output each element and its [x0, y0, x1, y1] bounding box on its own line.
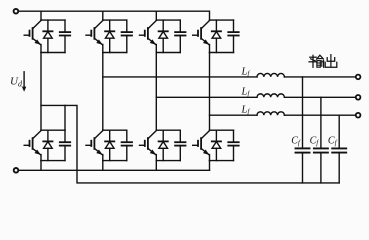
- svg-text:Cf: Cf: [291, 135, 301, 147]
- terminal: DC+ input: [14, 9, 19, 14]
- label 输出 (output): [309, 55, 324, 67]
- wire: module 2 emitter rail: [103, 52, 127, 54]
- wire: leg 3 emitter stub: [155, 161, 157, 171]
- inductor L3 (Lf): [257, 112, 284, 115]
- terminal: DC- input: [14, 168, 19, 173]
- inductor L1 (Lf): [257, 73, 284, 76]
- wire: module 2 collector rail: [103, 19, 127, 21]
- wire: leg 3 collector stub: [155, 11, 157, 20]
- wire: module 4 collector rail: [210, 19, 234, 21]
- wire: leg 3 midpoint vertical: [155, 53, 157, 131]
- diode D5 (anti-parallel): [43, 130, 52, 160]
- capacitor Cf1 (filter): [296, 77, 310, 183]
- wire: module 7 emitter rail: [156, 160, 180, 162]
- capacitor C6 (snubber): [122, 130, 132, 160]
- wire: leg 4 midpoint vertical: [209, 53, 211, 131]
- wire: leg 2 collector stub: [102, 11, 104, 20]
- capacitor C4 (snubber): [228, 20, 238, 52]
- wire: neutral from leg 1 midpoint: [41, 105, 339, 182]
- svg-text:Lf: Lf: [241, 66, 251, 78]
- diode D2 (anti-parallel): [105, 20, 114, 52]
- diode D8 (anti-parallel): [212, 130, 221, 160]
- transistor Q1 (IGBT): [24, 21, 41, 53]
- diode D1 (anti-parallel): [43, 20, 52, 52]
- svg-text:Lf: Lf: [241, 87, 251, 99]
- wire: module 4 emitter rail: [210, 52, 234, 54]
- capacitor C8 (snubber): [228, 130, 238, 160]
- wire: phase 2 to output terminal: [284, 96, 355, 98]
- wire: phase 1 output line: [103, 76, 257, 78]
- transistor Q7 (IGBT): [140, 131, 157, 161]
- transistor Q5 (IGBT): [24, 131, 41, 161]
- transistor Q2 (IGBT): [86, 21, 103, 53]
- svg-text:Ud: Ud: [10, 76, 23, 89]
- svg-text:Lf: Lf: [241, 105, 251, 117]
- transistor Q8 (IGBT): [193, 131, 210, 161]
- capacitor C3 (snubber): [175, 20, 185, 52]
- wire: phase 3 output line: [210, 114, 258, 116]
- capacitor C1 (snubber): [60, 20, 70, 52]
- capacitor C5 (snubber): [60, 130, 70, 160]
- capacitor C2 (snubber): [122, 20, 132, 52]
- wire: phase 3 to output terminal: [284, 114, 355, 116]
- diode D4 (anti-parallel): [212, 20, 221, 52]
- wire: DC- bus: [19, 169, 210, 171]
- wire: leg 2 emitter stub: [102, 161, 104, 171]
- wire: leg 1 midpoint vertical: [40, 53, 42, 131]
- wire: module 6 collector rail: [103, 129, 127, 131]
- wire: module 6 emitter rail: [103, 160, 127, 162]
- terminal: output phase 1: [356, 75, 361, 80]
- arrow: Ud direction: [23, 72, 25, 88]
- wire: leg 2 midpoint vertical: [102, 53, 104, 131]
- wire: module 5 collector rail: [41, 129, 65, 131]
- wire: module 8 emitter rail: [210, 160, 234, 162]
- wire: module 3 collector rail: [156, 19, 180, 21]
- capacitor Cf3 (filter): [332, 115, 346, 183]
- wire: phase 2 output line: [156, 96, 257, 98]
- svg-text:Cf: Cf: [310, 135, 320, 147]
- wire: leg 1 collector stub: [40, 11, 42, 20]
- diode D7 (anti-parallel): [159, 130, 168, 160]
- transistor Q3 (IGBT): [140, 21, 157, 53]
- wire: module 7 collector rail: [156, 129, 180, 131]
- terminal: output phase 2: [356, 95, 361, 100]
- inductor L2 (Lf): [257, 94, 284, 97]
- wire: DC+ bus: [19, 11, 210, 20]
- capacitor Cf2 (filter): [314, 97, 328, 183]
- diode D3 (anti-parallel): [159, 20, 168, 52]
- wire: phase 1 to output terminal: [284, 76, 355, 78]
- capacitor C7 (snubber): [175, 130, 185, 160]
- diode D6 (anti-parallel): [105, 130, 114, 160]
- wire: leg 1 emitter stub: [40, 161, 42, 171]
- wire: module 1 emitter rail: [41, 52, 65, 54]
- wire: neutral junction drop to module 5 rail: [64, 105, 66, 130]
- wire: module 5 emitter rail: [41, 160, 65, 162]
- svg-text:Cf: Cf: [328, 135, 338, 147]
- wire: module 3 emitter rail: [156, 52, 180, 54]
- transistor Q6 (IGBT): [86, 131, 103, 161]
- terminal: output phase 3: [356, 113, 361, 118]
- wire: module 1 collector rail: [41, 19, 65, 21]
- wire: module 8 collector rail: [210, 129, 234, 131]
- transistor Q4 (IGBT): [193, 21, 210, 53]
- wire: leg 4 emitter stub: [209, 161, 211, 171]
